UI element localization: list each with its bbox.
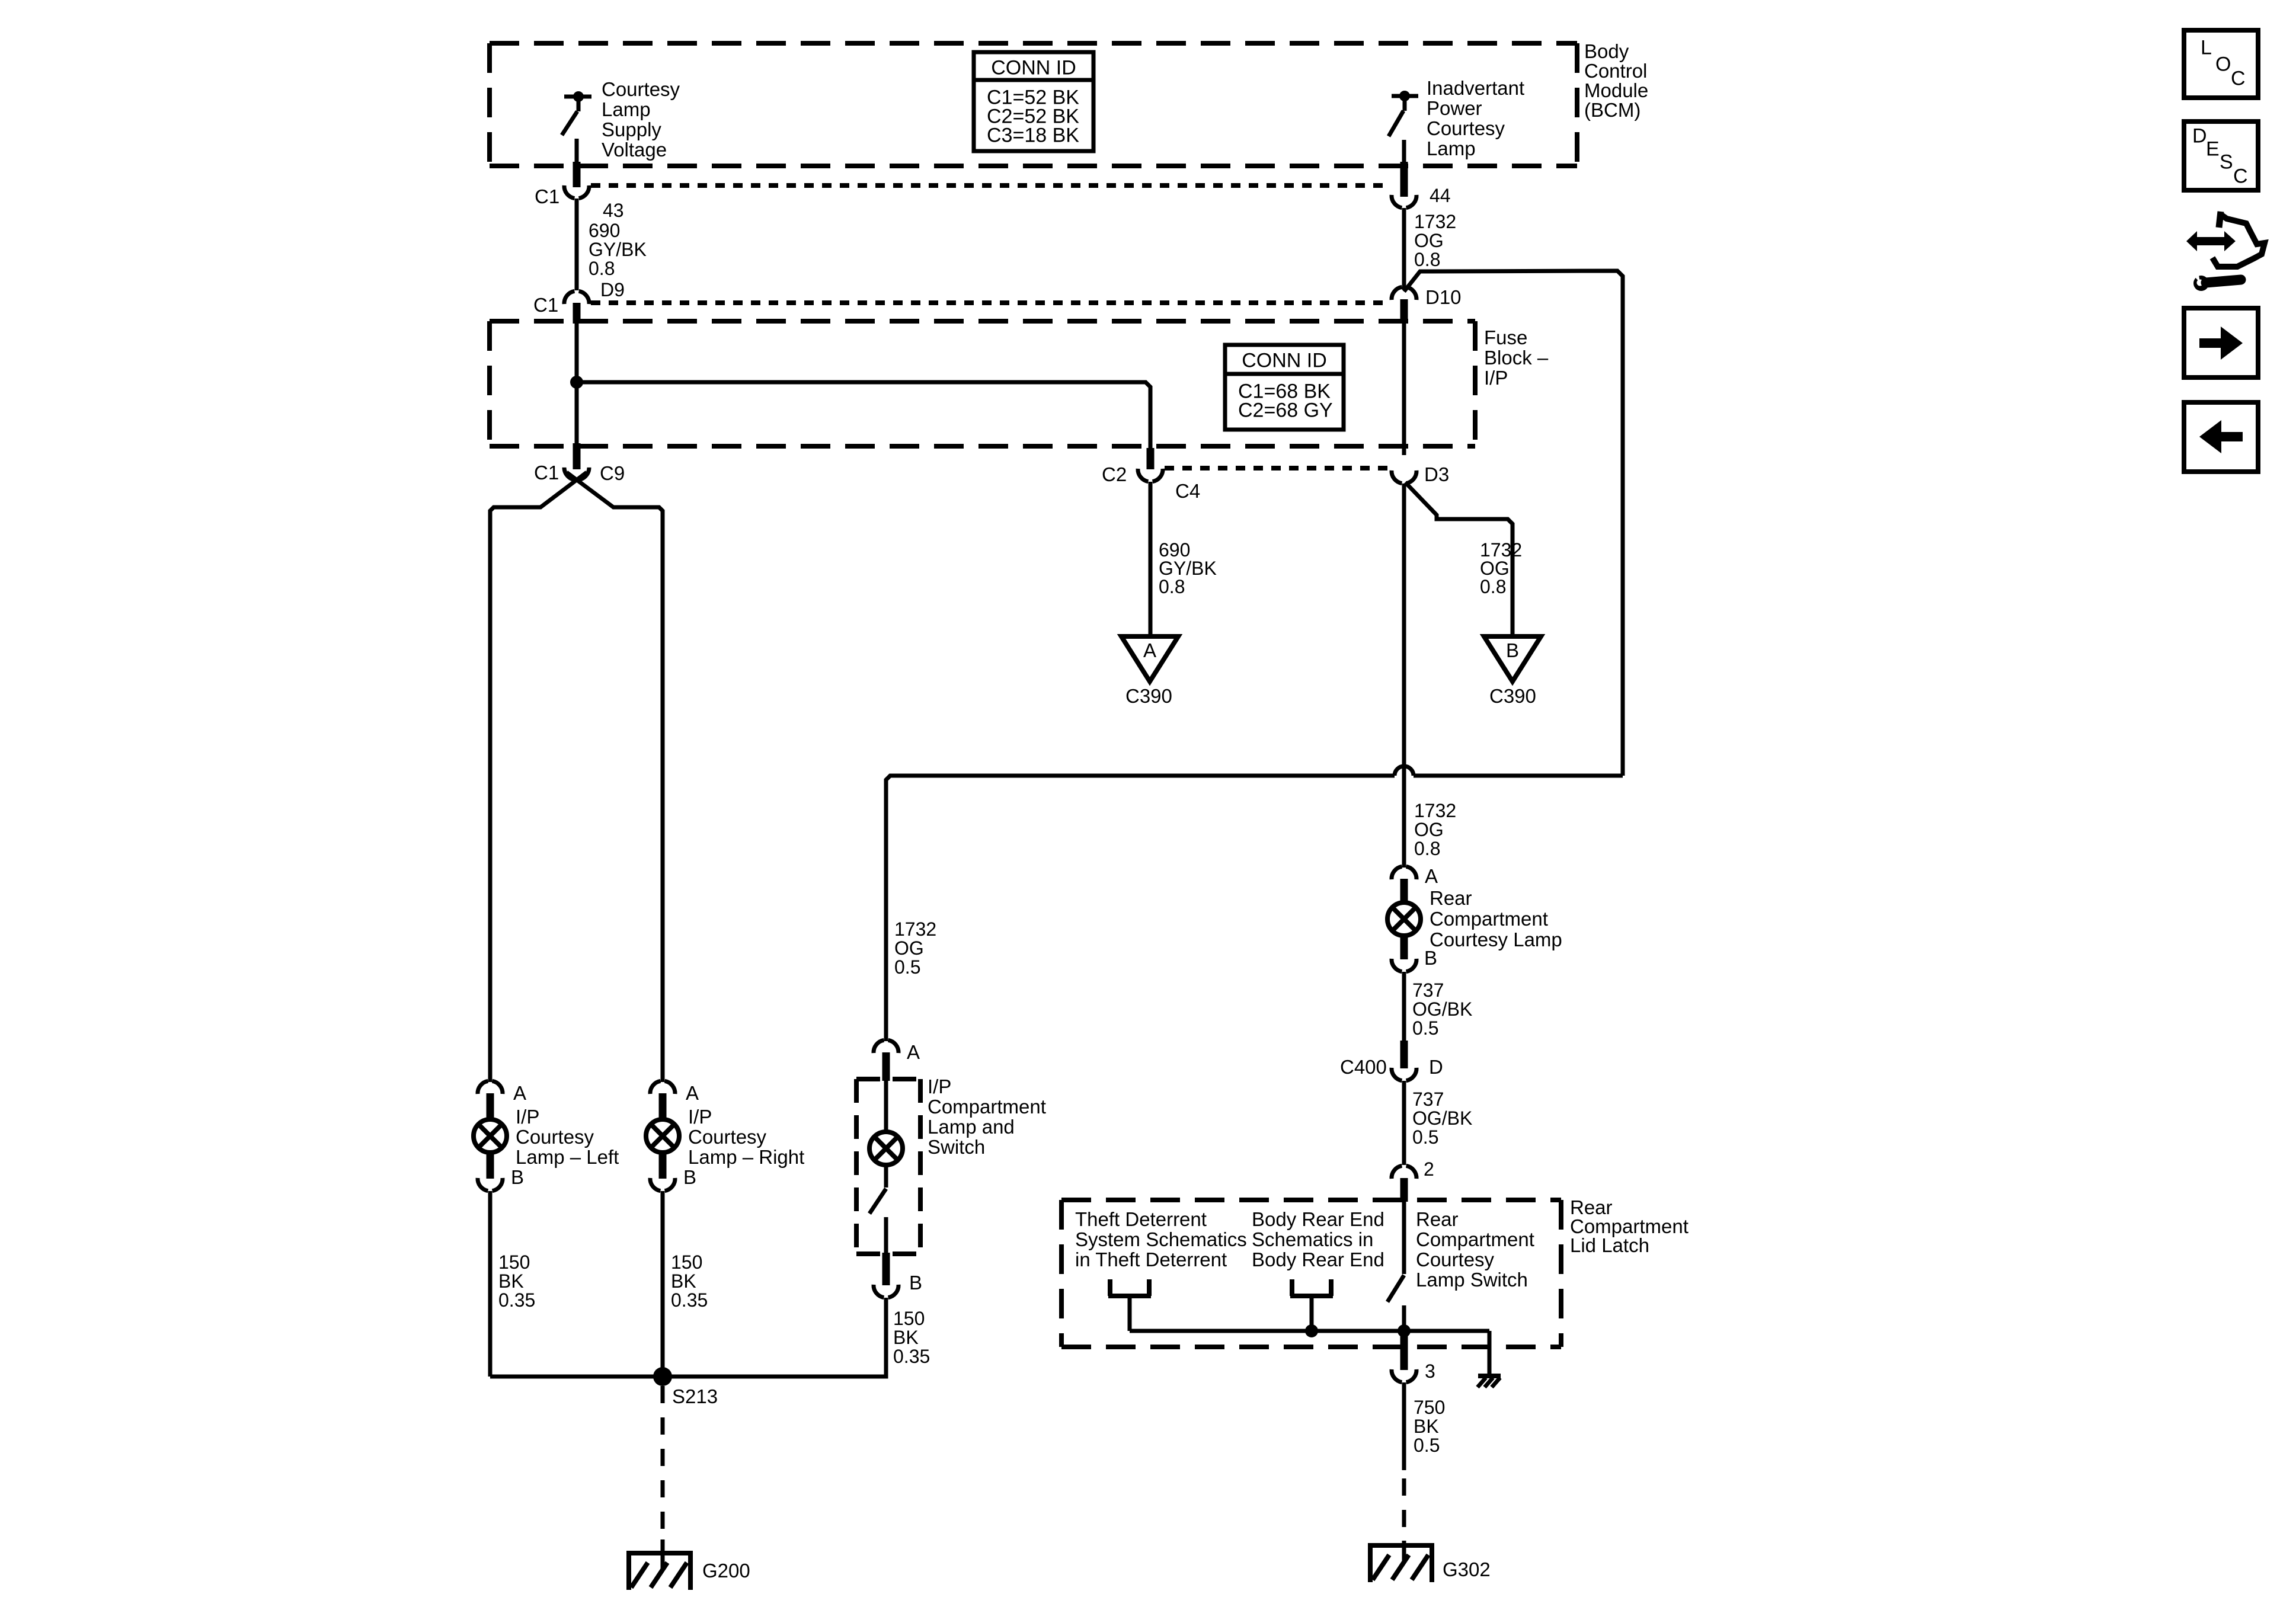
label I/P Courtesy Lamp - Right xyxy=(688,1106,804,1168)
wire label 43 690 GY/BK 0.8 xyxy=(589,200,647,279)
wire: BCM pin to C1 xyxy=(573,162,581,187)
svg-text:Lid Latch: Lid Latch xyxy=(1570,1234,1649,1256)
svg-text:737: 737 xyxy=(1412,1089,1444,1110)
lamp and switch internals xyxy=(869,1052,903,1285)
svg-text:I/P: I/P xyxy=(516,1106,539,1128)
connector D3 xyxy=(1392,463,1449,485)
svg-text:BK: BK xyxy=(893,1327,919,1348)
svg-text:C1: C1 xyxy=(534,462,559,484)
wire 737 OG/BK 0.5 (2) xyxy=(1402,1081,1406,1165)
svg-text:E: E xyxy=(2206,138,2220,161)
connector row C4 (dotted) xyxy=(1165,466,1390,470)
svg-text:GY/BK: GY/BK xyxy=(589,239,647,260)
label body rear end reference xyxy=(1252,1208,1384,1270)
switch: rear compartment courtesy lamp switch xyxy=(1387,1178,1404,1331)
wire: D3 branch to B triangle, 1732 OG 0.8 xyxy=(1405,482,1512,635)
connector row C1/D9 (BCM, dotted) xyxy=(591,300,1390,305)
svg-text:B: B xyxy=(1506,639,1519,661)
label theft deterrent reference xyxy=(1075,1208,1247,1270)
svg-text:I/P: I/P xyxy=(928,1076,951,1097)
wire: ground bus to S213 xyxy=(490,1372,886,1377)
svg-text:2: 2 xyxy=(1424,1158,1434,1180)
svg-text:Body Rear End: Body Rear End xyxy=(1252,1208,1384,1230)
connector A (I/P courtesy lamp Left) xyxy=(478,1081,526,1104)
wire: D3 down to rear compartment lamp xyxy=(1402,484,1406,868)
svg-text:A: A xyxy=(907,1041,920,1063)
svg-text:690: 690 xyxy=(589,220,620,241)
svg-text:Courtesy Lamp: Courtesy Lamp xyxy=(1430,929,1562,950)
svg-text:1732: 1732 xyxy=(1414,211,1456,232)
svg-text:C9: C9 xyxy=(600,462,625,484)
svg-text:0.5: 0.5 xyxy=(1412,1017,1438,1039)
svg-text:BK: BK xyxy=(498,1270,524,1292)
svg-text:Body Rear End: Body Rear End xyxy=(1252,1249,1384,1270)
wire 150 BK 0.35 (switch) xyxy=(884,1298,888,1374)
connector B (left lamp) xyxy=(478,1166,524,1191)
svg-text:Courtesy: Courtesy xyxy=(688,1126,767,1148)
icon: LOC button xyxy=(2184,30,2258,98)
wire: C2 stub xyxy=(1147,448,1155,469)
svg-text:0.8: 0.8 xyxy=(589,258,615,279)
connector row C1 (BCM, dotted) xyxy=(591,183,1390,188)
wire label 1732 OG 0.8 xyxy=(1480,539,1522,597)
wire 150 BK 0.35 (left) xyxy=(488,1191,493,1377)
svg-text:BK: BK xyxy=(1414,1416,1439,1437)
svg-text:Courtesy: Courtesy xyxy=(1416,1249,1495,1270)
svg-text:CONN ID: CONN ID xyxy=(1242,350,1327,372)
Rear Compartment Lid Latch dashed box xyxy=(1061,1200,1561,1347)
bracket: theft deterrent schematic link xyxy=(1108,1279,1151,1331)
svg-text:A: A xyxy=(1425,865,1438,887)
fuse block internal junction xyxy=(570,376,583,389)
svg-text:Block –: Block – xyxy=(1484,347,1549,369)
svg-text:Inadvertant: Inadvertant xyxy=(1427,77,1524,99)
wire 150 BK 0.35 (right) xyxy=(661,1191,665,1377)
splice S213 xyxy=(653,1367,718,1407)
off-page triangle B / C390 xyxy=(1484,636,1541,707)
svg-text:OG/BK: OG/BK xyxy=(1412,1108,1472,1129)
wire 1732 OG 0.8 xyxy=(1402,208,1406,290)
svg-text:B: B xyxy=(683,1166,696,1188)
ground bus inside lid latch xyxy=(1130,1324,1489,1375)
svg-text:CONN ID: CONN ID xyxy=(991,57,1076,79)
chassis ground (lid latch) xyxy=(1478,1376,1501,1387)
wire 750 BK 0.5 xyxy=(1402,1382,1406,1541)
svg-text:1732: 1732 xyxy=(894,918,936,940)
svg-text:A: A xyxy=(513,1082,526,1104)
Body Control Module (BCM) dashed box xyxy=(490,43,1577,166)
svg-text:737: 737 xyxy=(1412,980,1444,1001)
connector A (I/P courtesy lamp Right) xyxy=(650,1081,699,1104)
connector 44 xyxy=(1392,185,1451,208)
svg-text:Compartment: Compartment xyxy=(1430,908,1548,930)
connector C2 xyxy=(1102,463,1200,502)
wire label 750 BK 0.5 xyxy=(1414,1397,1445,1456)
svg-text:Schematics in: Schematics in xyxy=(1252,1228,1373,1250)
Fuse Block - I/P dashed box xyxy=(490,321,1475,446)
ground G302 xyxy=(1368,1541,1491,1582)
svg-text:OG: OG xyxy=(1414,819,1444,840)
svg-text:B: B xyxy=(909,1272,922,1294)
lamp: I/P Courtesy Lamp - Left xyxy=(474,1093,507,1179)
wire: crossing Y-split to left/right I/P lamps xyxy=(490,472,663,1082)
label: Inadvertant Power Courtesy Lamp xyxy=(1427,77,1524,159)
svg-text:C400: C400 xyxy=(1340,1056,1387,1078)
label: Courtesy Lamp Supply Voltage xyxy=(602,78,680,161)
wire label 737 OG/BK 0.5 xyxy=(1412,1089,1472,1148)
CONN ID table (Fuse Block) xyxy=(1225,345,1344,430)
connector D10 xyxy=(1392,286,1462,308)
wire label 1732 OG 0.8 xyxy=(1414,211,1456,270)
svg-text:in Theft Deterrent: in Theft Deterrent xyxy=(1075,1249,1227,1270)
svg-text:I/P: I/P xyxy=(1484,367,1508,389)
connector A (I/P compartment lamp and switch) xyxy=(874,1040,920,1063)
svg-text:C3=18 BK: C3=18 BK xyxy=(987,124,1079,147)
svg-text:Compartment: Compartment xyxy=(928,1096,1046,1118)
label I/P Courtesy Lamp - Left xyxy=(516,1106,619,1168)
wire: S213 to G200 (dashed) xyxy=(661,1386,665,1567)
svg-text:43: 43 xyxy=(603,200,624,221)
svg-text:0.35: 0.35 xyxy=(498,1289,535,1311)
svg-text:A: A xyxy=(686,1082,699,1104)
svg-text:0.5: 0.5 xyxy=(1414,1435,1440,1456)
connector C1/C9 cup xyxy=(534,462,625,484)
svg-text:0.8: 0.8 xyxy=(1480,576,1506,597)
svg-text:0.8: 0.8 xyxy=(1414,249,1440,270)
switch: Inadvertant Power Courtesy Lamp (BCM internal, right) xyxy=(1389,91,1418,165)
svg-text:Rear: Rear xyxy=(1430,887,1472,909)
svg-text:C1: C1 xyxy=(533,294,558,316)
svg-text:150: 150 xyxy=(893,1308,925,1329)
svg-text:OG: OG xyxy=(1414,230,1444,251)
svg-text:Lamp – Left: Lamp – Left xyxy=(516,1146,619,1168)
icon: DESC button xyxy=(2184,121,2258,190)
svg-text:0.5: 0.5 xyxy=(1412,1126,1438,1148)
wire 737 OG/BK 0.5 xyxy=(1402,972,1406,1042)
svg-text:D3: D3 xyxy=(1424,463,1449,485)
svg-text:G302: G302 xyxy=(1443,1558,1491,1580)
svg-text:D: D xyxy=(2192,125,2207,148)
svg-text:0.5: 0.5 xyxy=(894,956,920,978)
svg-text:OG: OG xyxy=(894,937,924,959)
svg-text:0.35: 0.35 xyxy=(893,1346,930,1367)
wire label 737 OG/BK 0.5 xyxy=(1412,980,1472,1039)
svg-text:C: C xyxy=(2233,165,2248,188)
svg-text:Power: Power xyxy=(1427,97,1482,119)
svg-text:1732: 1732 xyxy=(1414,800,1456,821)
svg-text:(BCM): (BCM) xyxy=(1584,99,1641,121)
svg-text:B: B xyxy=(1424,947,1437,969)
off-page triangle A / C390 xyxy=(1121,636,1178,707)
wire label 1732 OG 0.8 (main) xyxy=(1414,800,1456,859)
bracket: body rear end schematic link xyxy=(1290,1279,1333,1331)
connector C1 (pin 43) xyxy=(535,185,589,207)
svg-text:Courtesy: Courtesy xyxy=(1427,117,1505,139)
svg-text:C2: C2 xyxy=(1102,463,1127,485)
wire: C1/C9 stub xyxy=(573,443,581,469)
lamp: Rear Compartment Courtesy Lamp xyxy=(1387,879,1421,959)
svg-text:0.8: 0.8 xyxy=(1159,576,1185,597)
label Rear Compartment Courtesy Lamp xyxy=(1430,887,1562,950)
svg-text:L: L xyxy=(2201,37,2212,59)
I/P compartment lamp and switch dashed box xyxy=(856,1079,920,1254)
svg-text:BK: BK xyxy=(671,1270,696,1292)
svg-text:Fuse: Fuse xyxy=(1484,327,1527,348)
BCM label xyxy=(1584,40,1648,121)
svg-text:Lamp – Right: Lamp – Right xyxy=(688,1146,804,1168)
svg-text:O: O xyxy=(2215,53,2231,76)
svg-text:Rear: Rear xyxy=(1416,1208,1459,1230)
wire label 1732 OG 0.5 xyxy=(894,918,936,978)
svg-text:C: C xyxy=(2231,68,2246,90)
label I/P Compartment Lamp and Switch xyxy=(928,1076,1046,1158)
connector 3 xyxy=(1392,1334,1435,1382)
svg-text:C390: C390 xyxy=(1489,685,1536,707)
connector B (rear lamp) xyxy=(1392,947,1437,972)
switch: Courtesy Lamp Supply Voltage (BCM internal, left) xyxy=(562,91,591,165)
svg-text:C4: C4 xyxy=(1175,480,1200,502)
label Rear Compartment Courtesy Lamp Switch xyxy=(1416,1208,1534,1291)
svg-text:750: 750 xyxy=(1414,1397,1445,1418)
connector C400 pin D xyxy=(1340,1041,1443,1081)
wire label 150 BK 0.35 xyxy=(671,1251,708,1311)
svg-text:S213: S213 xyxy=(672,1385,718,1407)
svg-text:Lamp: Lamp xyxy=(602,98,651,120)
svg-text:S: S xyxy=(2220,151,2233,174)
svg-text:C2=68 GY: C2=68 GY xyxy=(1238,399,1333,422)
lamp: I/P Courtesy Lamp - Right xyxy=(646,1093,679,1179)
wire: D10 into Fuse Block xyxy=(1400,299,1408,455)
svg-text:Compartment: Compartment xyxy=(1416,1228,1534,1250)
svg-text:Theft Deterrent: Theft Deterrent xyxy=(1075,1208,1207,1230)
ground G200 xyxy=(626,1539,750,1590)
svg-text:Module: Module xyxy=(1584,79,1648,101)
svg-text:150: 150 xyxy=(671,1251,702,1273)
svg-text:A: A xyxy=(1143,639,1156,661)
svg-text:Courtesy: Courtesy xyxy=(516,1126,594,1148)
svg-text:Switch: Switch xyxy=(928,1136,985,1158)
svg-text:Control: Control xyxy=(1584,60,1647,82)
icon: back arrow button xyxy=(2184,402,2258,472)
label: Fuse Block - I/P xyxy=(1484,327,1549,389)
svg-text:OG/BK: OG/BK xyxy=(1412,998,1472,1020)
wire label 690 GY/BK 0.8 xyxy=(1159,539,1217,597)
svg-text:D9: D9 xyxy=(600,279,625,300)
icon: forward arrow button xyxy=(2184,308,2258,377)
svg-text:D: D xyxy=(1429,1056,1443,1078)
svg-text:0.35: 0.35 xyxy=(671,1289,708,1311)
svg-text:D10: D10 xyxy=(1425,286,1462,308)
wire: C2 to A triangle, 690 GY/BK 0.8 xyxy=(1149,482,1153,635)
label Rear Compartment Lid Latch xyxy=(1570,1196,1689,1256)
svg-text:Voltage: Voltage xyxy=(602,139,667,161)
svg-text:C1: C1 xyxy=(535,185,559,207)
svg-text:0.8: 0.8 xyxy=(1414,838,1440,859)
CONN ID table (BCM) xyxy=(974,52,1093,151)
svg-text:Lamp: Lamp xyxy=(1427,137,1476,159)
icon: double arrow with wrench xyxy=(2186,212,2265,291)
wire label 150 BK 0.35 xyxy=(893,1308,930,1367)
wire: fuse block bypass (up right over fuse block) xyxy=(1404,271,1623,776)
svg-text:Lamp Switch: Lamp Switch xyxy=(1416,1269,1528,1291)
svg-text:G200: G200 xyxy=(702,1560,750,1582)
svg-text:Supply: Supply xyxy=(602,119,661,140)
wire: bypass to I/P compartment lamp (hops main wire) xyxy=(886,766,1623,1041)
connector A (rear compartment courtesy lamp) xyxy=(1392,865,1438,887)
connector B (right lamp) xyxy=(650,1166,696,1191)
svg-text:Courtesy: Courtesy xyxy=(602,78,680,100)
connector 2 (lid latch) xyxy=(1392,1158,1434,1180)
svg-text:Lamp and: Lamp and xyxy=(928,1116,1015,1138)
connector C1 pin D9 xyxy=(533,279,625,316)
wire label 150 BK 0.35 xyxy=(498,1251,535,1311)
wire: BCM pin 44 stub xyxy=(1400,162,1408,197)
svg-text:C390: C390 xyxy=(1125,685,1172,707)
wire: fuse junction to C2 xyxy=(577,382,1150,452)
svg-text:44: 44 xyxy=(1430,185,1451,206)
svg-text:150: 150 xyxy=(498,1251,530,1273)
svg-text:System Schematics: System Schematics xyxy=(1075,1228,1247,1250)
svg-text:Body: Body xyxy=(1584,40,1629,62)
svg-text:3: 3 xyxy=(1425,1361,1435,1382)
connector B (compartment switch) xyxy=(874,1272,922,1298)
wire: D9 into Fuse Block xyxy=(573,303,581,455)
svg-text:B: B xyxy=(511,1166,524,1188)
svg-text:I/P: I/P xyxy=(688,1106,712,1128)
wire 43 690 GY/BK 0.8 xyxy=(575,199,579,290)
